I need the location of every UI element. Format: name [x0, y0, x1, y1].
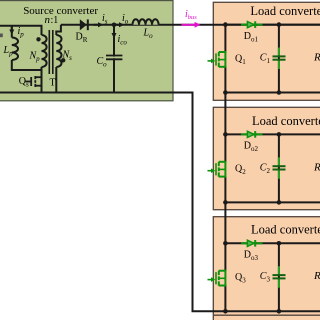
transformer primary winding Np: [42, 35, 47, 67]
source converter box: [0, 1, 173, 101]
load converter 1 box: [213, 2, 320, 100]
polarity dot primary: [36, 37, 40, 41]
bus arrow i_bus: [182, 22, 201, 28]
current arrow ico: [112, 28, 117, 39]
svg-text:R: R: [313, 161, 320, 173]
current arrow is: [94, 22, 104, 27]
svg-text:R: R: [313, 270, 320, 282]
svg-text:Load converter 3: Load converter 3: [251, 222, 320, 236]
svg-text::1: :1: [51, 15, 59, 26]
transformer core: [49, 30, 53, 74]
diode Do1: [241, 21, 263, 28]
mosfet Q1: [208, 52, 227, 67]
wire Lp branch top: [11, 26, 13, 38]
polarity dot secondary: [61, 58, 65, 62]
capacitor C2: [273, 157, 286, 179]
load converter 3 box: [213, 217, 320, 320]
label cut fragment left edge: [0, 34, 3, 38]
diode DR: [80, 19, 89, 30]
mosfet Q2: [208, 162, 227, 177]
transformer secondary winding Ns: [56, 35, 61, 67]
mosfet Qs: [25, 76, 41, 87]
svg-text:Load converter 1: Load converter 1: [250, 4, 320, 18]
wire cap branch box2: [278, 134, 280, 202]
inductor Lo: [133, 19, 159, 25]
wire Co branch: [113, 25, 115, 93]
node dots box2: [223, 132, 281, 205]
wire secondary top jog: [56, 25, 61, 35]
capacitor Co: [106, 56, 122, 60]
wire bottom row box2: [225, 201, 320, 203]
wire primary to drain: [41, 67, 43, 93]
bus rail vertical: [224, 25, 226, 312]
inductor Lp: [12, 38, 18, 61]
wire bottom row box1: [225, 92, 320, 94]
node dot at Co branch: [112, 23, 117, 28]
diode Do2: [241, 131, 263, 138]
node dots box1: [223, 22, 281, 94]
capacitor C3: [273, 266, 286, 288]
diode Do3: [241, 240, 263, 247]
wire Lp bottom: [12, 60, 42, 70]
wire top row box2: [225, 133, 320, 135]
node dots box3: [223, 241, 281, 314]
svg-text:T: T: [50, 78, 56, 89]
wire input top: [0, 26, 42, 35]
wire secondary bottom: [55, 67, 57, 93]
svg-text:Source converter: Source converter: [23, 5, 98, 17]
wire top row box3: [225, 242, 320, 244]
svg-text:Load converter 2: Load converter 2: [252, 114, 320, 128]
erase Co line between plates: [113, 57, 115, 59]
svg-text:R: R: [313, 52, 320, 64]
wire bottom rail + return loop: [0, 93, 320, 312]
wire top row box1: [225, 24, 320, 26]
mosfet Q3: [208, 271, 227, 286]
wire diode row: [61, 24, 320, 26]
current arrow ip: [9, 27, 14, 35]
wire cap branch box1: [278, 25, 280, 93]
svg-text:ibus: ibus: [185, 9, 197, 21]
wire cap branch box3: [278, 243, 280, 311]
capacitor C1: [273, 48, 286, 70]
current arrow io: [116, 22, 125, 27]
load converter 2 box: [213, 107, 320, 209]
